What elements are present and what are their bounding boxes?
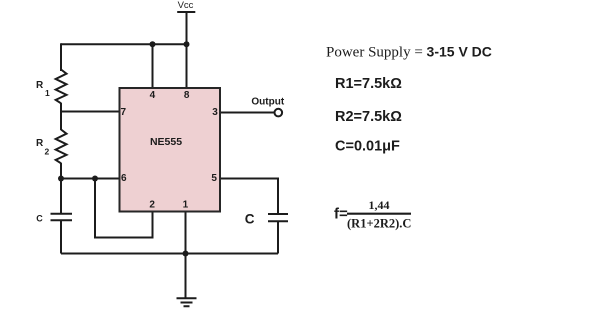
wire top rail to R1 <box>60 43 62 71</box>
capacitor C2 plates <box>268 214 288 221</box>
svg-text:1: 1 <box>45 88 50 98</box>
wire pin 7 <box>61 111 120 113</box>
wire pin 5 <box>220 179 278 214</box>
svg-text:6: 6 <box>121 173 127 184</box>
svg-text:8: 8 <box>184 90 190 101</box>
power rail Vcc bar <box>177 11 195 13</box>
svg-text:Output: Output <box>251 97 284 108</box>
wire top rail <box>61 43 187 45</box>
resistor R1 <box>56 70 67 104</box>
svg-text:Vcc: Vcc <box>178 0 194 11</box>
terminal output circle <box>275 109 283 117</box>
svg-text:1: 1 <box>183 199 189 210</box>
svg-text:R: R <box>36 80 44 91</box>
node junction left/pin6 <box>58 176 64 182</box>
ground <box>177 298 197 306</box>
node junction pin8/top rail <box>184 41 190 47</box>
wire C1 to bottom rail <box>60 221 62 254</box>
node junction pin4/top rail <box>150 41 156 47</box>
svg-text:C=0.01μF: C=0.01μF <box>335 139 400 155</box>
svg-text:R2=7.5kΩ: R2=7.5kΩ <box>335 109 402 125</box>
wire pin1 to ground <box>185 212 187 299</box>
node junction pin2 branch <box>92 176 98 182</box>
resistor R2 <box>56 130 67 164</box>
svg-text:2: 2 <box>45 146 50 156</box>
svg-text:7: 7 <box>121 107 127 118</box>
IC U1 NE555 body <box>120 88 221 212</box>
wire pin2 to node6 U-link <box>95 179 153 238</box>
svg-text:R: R <box>36 138 44 149</box>
svg-text:C: C <box>245 211 255 226</box>
svg-text:1,44: 1,44 <box>369 198 390 212</box>
wire R2 to node 6 <box>60 163 62 179</box>
wire pin 3 output <box>220 112 275 114</box>
svg-text:C: C <box>36 213 43 223</box>
capacitor C1 plates <box>51 214 73 221</box>
formula fraction bar <box>347 213 411 215</box>
node junction pin1/bottom rail <box>183 251 189 257</box>
wire pin 6 <box>61 178 120 180</box>
wire pin 4 drop <box>152 44 154 88</box>
svg-text:f=: f= <box>334 205 348 222</box>
wire C2 to bottom rail <box>277 222 279 254</box>
svg-text:3: 3 <box>212 107 218 118</box>
svg-text:NE555: NE555 <box>150 136 182 148</box>
svg-text:Power Supply = 3-15 V DC: Power Supply = 3-15 V DC <box>326 44 492 61</box>
wire R1 to R2 <box>60 103 62 130</box>
svg-text:2: 2 <box>149 199 155 210</box>
wire Vcc to pin 8 <box>186 12 188 88</box>
svg-text:5: 5 <box>211 173 217 184</box>
svg-text:(R1+2R2).C: (R1+2R2).C <box>347 216 411 230</box>
wire bottom rail <box>61 253 278 255</box>
wire node6 to C1 <box>60 179 62 214</box>
svg-text:R1=7.5kΩ: R1=7.5kΩ <box>335 76 402 92</box>
svg-text:4: 4 <box>150 90 156 101</box>
